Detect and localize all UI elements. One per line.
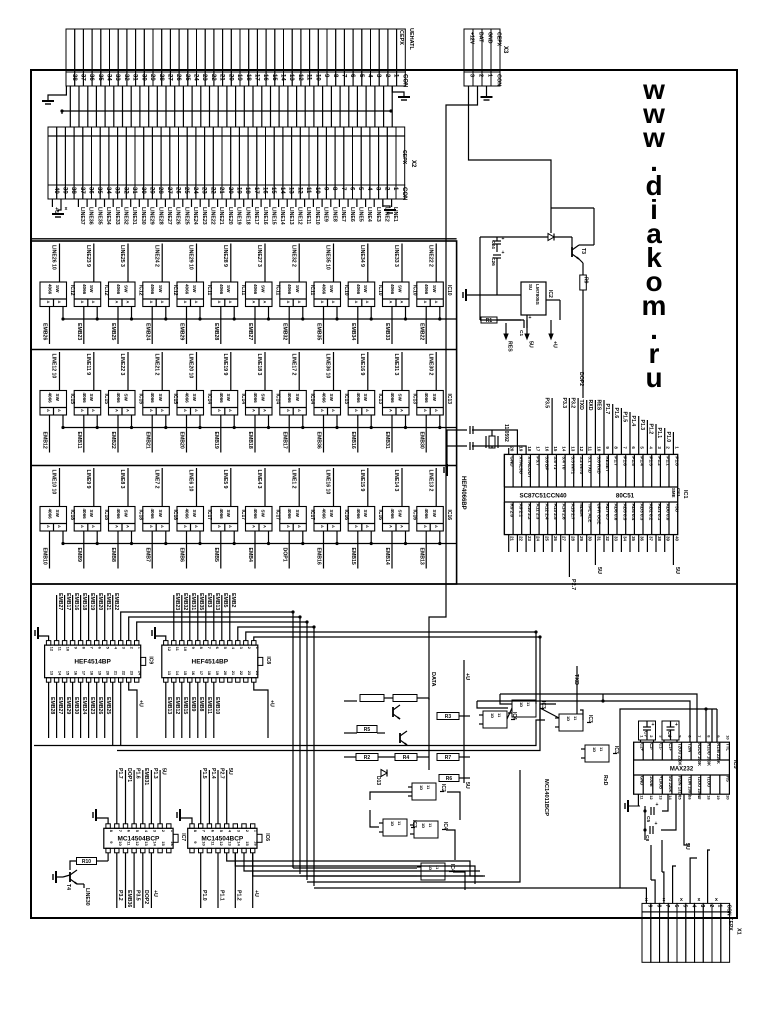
svg-text:X1: X1	[736, 928, 742, 935]
svg-text:4066: 4066	[150, 284, 155, 295]
svg-text:P3.2: P3.2	[117, 890, 123, 901]
svg-text:22: 22	[122, 671, 127, 676]
svg-text:CEPX: CEPX	[398, 30, 404, 45]
svg-text:4: 4	[114, 647, 119, 650]
svg-text:4: 4	[228, 830, 233, 833]
svg-text:37: 37	[648, 536, 653, 541]
svg-text:A: A	[434, 301, 439, 304]
svg-text:16: 16	[262, 74, 268, 81]
svg-text:1: 1	[717, 905, 723, 908]
svg-text:EMB11: EMB11	[206, 697, 212, 714]
svg-text:2: 2	[383, 187, 389, 191]
svg-text:38: 38	[70, 187, 76, 194]
svg-text:EMB24: EMB24	[81, 697, 87, 714]
svg-text:A: A	[46, 409, 51, 412]
svg-text:7: 7	[340, 187, 346, 191]
svg-text:24: 24	[193, 74, 199, 81]
svg-text:20: 20	[223, 671, 228, 676]
svg-text:19: 19	[215, 671, 220, 676]
svg-text:LINE30: LINE30	[84, 888, 90, 906]
svg-text:LINE12: LINE12	[297, 207, 303, 225]
svg-text:A: A	[80, 409, 85, 412]
svg-text:A: A	[331, 301, 336, 304]
svg-text:4066: 4066	[322, 284, 327, 295]
svg-text:4: 4	[367, 74, 373, 78]
svg-text:24: 24	[536, 536, 541, 541]
svg-text:4066: 4066	[185, 393, 190, 404]
svg-text:3.6 BP: 3.6 BP	[544, 456, 549, 470]
svg-text:30: 30	[140, 74, 146, 81]
svg-text:11: 11	[306, 74, 312, 81]
svg-text:27: 27	[562, 536, 567, 541]
svg-text:20: 20	[227, 187, 233, 194]
svg-text:8: 8	[614, 446, 619, 449]
svg-text:LINE37: LINE37	[79, 207, 85, 225]
svg-text:MC14504BCP: MC14504BCP	[117, 835, 160, 842]
svg-text:R9: R9	[583, 277, 589, 284]
svg-text:SW: SW	[226, 285, 231, 293]
svg-text:A: A	[297, 525, 302, 528]
svg-text:TXD: TXD	[573, 674, 579, 685]
svg-text:20: 20	[106, 671, 111, 676]
svg-text:MC14011BCP: MC14011BCP	[543, 779, 549, 816]
svg-text:28: 28	[157, 187, 163, 194]
svg-text:SW: SW	[363, 510, 368, 518]
svg-text:3: 3	[657, 446, 662, 449]
svg-text:LM7805S: LM7805S	[534, 284, 540, 306]
svg-text:P1.7: P1.7	[117, 768, 123, 779]
svg-text:29: 29	[579, 536, 584, 541]
svg-text:CEPX: CEPX	[496, 32, 502, 47]
svg-text:7: 7	[90, 647, 95, 650]
svg-text:CON: CON	[401, 187, 407, 200]
svg-text:LINE31 3: LINE31 3	[393, 354, 399, 376]
svg-text:P1.5: P1.5	[631, 456, 636, 466]
svg-text:5: 5	[358, 74, 364, 78]
svg-text:A10 2.2: A10 2.2	[527, 504, 532, 521]
svg-text:4066: 4066	[287, 509, 292, 520]
svg-text:A: A	[217, 409, 222, 412]
svg-text:P1.6: P1.6	[135, 768, 141, 779]
svg-text:LINE12 10: LINE12 10	[51, 354, 57, 379]
svg-text:12: 12	[297, 74, 303, 81]
svg-text:5: 5	[135, 830, 140, 833]
svg-text:EMB20: EMB20	[179, 432, 185, 449]
svg-text:11: 11	[599, 747, 604, 752]
svg-text:SW: SW	[158, 285, 163, 293]
svg-text:3.2 INT0: 3.2 INT0	[579, 456, 584, 474]
svg-text:4: 4	[366, 187, 372, 191]
svg-text:P1.1: P1.1	[656, 428, 662, 439]
svg-text:21: 21	[114, 671, 119, 676]
svg-text:36: 36	[88, 74, 94, 81]
svg-text:2: 2	[666, 446, 671, 449]
svg-text:+U: +U	[552, 341, 558, 348]
svg-text:SW: SW	[55, 394, 60, 402]
svg-text:P3.5: P3.5	[544, 398, 550, 409]
svg-text:IC16: IC16	[446, 510, 452, 521]
svg-text:9: 9	[322, 187, 328, 191]
svg-text:EMB17: EMB17	[281, 432, 287, 449]
svg-text:10: 10	[726, 735, 731, 740]
svg-text:IC3: IC3	[587, 715, 593, 723]
svg-text:22: 22	[209, 187, 215, 194]
svg-text:A12 2.4: A12 2.4	[544, 504, 549, 521]
svg-text:A: A	[183, 301, 188, 304]
svg-text:DOP1: DOP1	[281, 548, 287, 562]
svg-text:20: 20	[726, 795, 731, 800]
svg-text:18: 18	[207, 671, 212, 676]
svg-text:SC87C51CCN40: SC87C51CCN40	[519, 493, 567, 500]
svg-text:IC6: IC6	[264, 833, 270, 841]
svg-text:x: x	[680, 897, 683, 903]
svg-text:CS1: CS1	[676, 488, 681, 497]
svg-text:9: 9	[191, 647, 196, 650]
svg-text:LINE22: LINE22	[210, 207, 216, 225]
svg-text:4066: 4066	[116, 284, 121, 295]
svg-text:17: 17	[82, 671, 87, 676]
svg-text:EMB29: EMB29	[179, 323, 185, 340]
svg-text:20: 20	[227, 74, 233, 81]
svg-text:D13: D13	[375, 776, 381, 785]
svg-text:14: 14	[562, 446, 567, 451]
svg-text:A: A	[228, 525, 233, 528]
svg-text:LINE20: LINE20	[227, 207, 233, 225]
svg-text:HEF4514BP: HEF4514BP	[192, 658, 229, 665]
svg-text:+: +	[656, 802, 659, 808]
svg-text:P1.2: P1.2	[236, 890, 242, 901]
svg-text:5: 5	[640, 446, 645, 449]
svg-text:4066: 4066	[287, 393, 292, 404]
svg-text:10: 10	[183, 647, 188, 652]
svg-text:A: A	[217, 525, 222, 528]
svg-text:1: 1	[254, 830, 259, 833]
svg-text:23: 23	[201, 74, 207, 81]
svg-text:LINE32: LINE32	[123, 207, 129, 225]
svg-text:13: 13	[659, 795, 664, 800]
svg-text:x: x	[715, 897, 718, 903]
svg-text:34: 34	[106, 74, 112, 81]
svg-text:A: A	[320, 525, 325, 528]
svg-text:P1.4: P1.4	[640, 456, 645, 466]
svg-text:36: 36	[640, 536, 645, 541]
svg-text:A: A	[423, 525, 428, 528]
svg-text:4066: 4066	[185, 509, 190, 520]
svg-text:7: 7	[664, 905, 670, 908]
svg-text:5U: 5U	[227, 768, 233, 775]
svg-text:EMB6: EMB6	[179, 548, 185, 563]
svg-text:LINE32 2: LINE32 2	[290, 245, 296, 267]
svg-text:4066: 4066	[424, 284, 429, 295]
svg-text:IC2: IC2	[440, 784, 446, 792]
svg-text:EMB30: EMB30	[73, 697, 79, 714]
svg-text:1: 1	[393, 74, 399, 78]
svg-text:LINE13 2: LINE13 2	[427, 470, 433, 492]
svg-text:LINE13: LINE13	[288, 207, 294, 225]
svg-text:35: 35	[96, 187, 102, 194]
svg-text:EMB4: EMB4	[247, 548, 253, 563]
svg-text:EMB11: EMB11	[76, 432, 82, 449]
svg-text:EMB5: EMB5	[222, 593, 228, 608]
svg-text:32: 32	[123, 74, 129, 81]
svg-text:AD1 0.1: AD1 0.1	[657, 504, 662, 521]
svg-text:DATA: DATA	[430, 672, 436, 686]
svg-text:35: 35	[97, 74, 103, 81]
svg-text:11: 11	[175, 647, 180, 652]
svg-text:29: 29	[149, 74, 155, 81]
svg-text:A: A	[57, 409, 62, 412]
svg-text:P1.1: P1.1	[218, 890, 224, 901]
svg-text:18: 18	[90, 671, 95, 676]
svg-text:LINE9: LINE9	[323, 207, 329, 222]
svg-text:LINE21 2: LINE21 2	[153, 354, 159, 376]
svg-text:NDEH: NDEH	[579, 504, 584, 518]
svg-text:19: 19	[236, 74, 242, 81]
svg-text:30: 30	[140, 187, 146, 194]
svg-text:EMB18: EMB18	[247, 432, 253, 449]
svg-text:EMB26: EMB26	[97, 697, 103, 714]
svg-text:AD0 0.0: AD0 0.0	[666, 504, 671, 521]
svg-text:LINE15 9: LINE15 9	[359, 470, 365, 492]
svg-text:SW: SW	[89, 285, 94, 293]
svg-text:LINE33: LINE33	[114, 207, 120, 225]
svg-text:15: 15	[183, 671, 188, 676]
svg-text:EMB13: EMB13	[214, 593, 220, 610]
svg-text:R2: R2	[364, 755, 371, 761]
svg-text:+U: +U	[464, 673, 470, 680]
svg-text:22: 22	[518, 536, 523, 541]
svg-text:25: 25	[544, 536, 549, 541]
svg-text:A: A	[365, 525, 370, 528]
svg-text:9: 9	[109, 841, 114, 844]
svg-text:LINE22 3: LINE22 3	[119, 354, 125, 376]
svg-text:27: 27	[166, 187, 172, 194]
svg-text:IC13: IC13	[446, 394, 452, 405]
svg-text:SW: SW	[432, 285, 437, 293]
svg-text:LINE27: LINE27	[166, 207, 172, 225]
svg-text:2: 2	[247, 647, 252, 650]
svg-text:LINE3: LINE3	[375, 207, 381, 222]
svg-text:33: 33	[114, 187, 120, 194]
svg-text:17: 17	[253, 74, 259, 81]
svg-text:6: 6	[673, 905, 679, 908]
svg-text:40: 40	[53, 187, 59, 194]
svg-text:3: 3	[699, 905, 705, 908]
svg-text:6: 6	[210, 830, 215, 833]
svg-text:EMB8: EMB8	[198, 697, 204, 712]
svg-text:SME: SME	[671, 488, 676, 498]
svg-text:4066: 4066	[48, 284, 53, 295]
svg-text:A: A	[354, 301, 359, 304]
svg-text:EMB34: EMB34	[350, 323, 356, 340]
svg-text:1D: 1D	[390, 821, 395, 826]
svg-text:A: A	[320, 301, 325, 304]
svg-text:37: 37	[79, 187, 85, 194]
svg-text:AD5 0.5: AD5 0.5	[622, 504, 627, 521]
svg-text:EMB27: EMB27	[247, 323, 253, 340]
svg-text:1D: 1D	[490, 713, 495, 718]
svg-text:22: 22	[239, 671, 244, 676]
svg-text:A: A	[263, 525, 268, 528]
svg-text:A: A	[331, 409, 336, 412]
svg-text:18: 18	[244, 187, 250, 194]
svg-text:SW: SW	[329, 510, 334, 518]
svg-text:15: 15	[66, 671, 71, 676]
svg-text:LINE35 10: LINE35 10	[325, 245, 331, 270]
svg-text:EMB2: EMB2	[230, 593, 236, 608]
svg-text:LINE11 9: LINE11 9	[85, 354, 91, 376]
svg-text:LINE25 3: LINE25 3	[119, 245, 125, 267]
svg-text:UPR OCE: UPR OCE	[596, 504, 601, 525]
svg-text:A: A	[194, 301, 199, 304]
svg-text:LINE4: LINE4	[366, 207, 372, 222]
svg-text:A: A	[320, 409, 325, 412]
svg-text:EMB10: EMB10	[214, 697, 220, 714]
svg-text:EMB21: EMB21	[105, 593, 111, 610]
svg-text:4066: 4066	[322, 393, 327, 404]
svg-text:24: 24	[138, 671, 143, 676]
svg-text:15: 15	[270, 187, 276, 194]
svg-text:8: 8	[332, 74, 338, 78]
svg-text:EMB9: EMB9	[76, 548, 82, 563]
svg-text:SU: SU	[528, 284, 533, 290]
svg-text:11: 11	[573, 716, 578, 721]
svg-text:UEHATL: UEHATL	[408, 28, 414, 51]
svg-text:3: 3	[239, 647, 244, 650]
svg-text:LINE10: LINE10	[314, 207, 320, 225]
svg-text:11: 11	[397, 821, 402, 826]
svg-text:A: A	[80, 301, 85, 304]
svg-text:LINE6 10: LINE6 10	[188, 470, 194, 492]
svg-text:TXD: TXD	[578, 400, 584, 411]
svg-text:C24: C24	[490, 240, 496, 249]
svg-text:LINE22 2: LINE22 2	[427, 245, 433, 267]
svg-text:A: A	[149, 301, 154, 304]
svg-text:A: A	[126, 525, 131, 528]
svg-text:SW: SW	[89, 394, 94, 402]
svg-text:LINE8: LINE8	[331, 207, 337, 222]
svg-text:P3.2: P3.2	[570, 398, 576, 409]
svg-text:19: 19	[518, 446, 523, 451]
svg-text:LINE27 3: LINE27 3	[256, 245, 262, 267]
svg-text:EMB32: EMB32	[182, 593, 188, 610]
svg-text:A: A	[331, 525, 336, 528]
svg-text:3: 3	[375, 187, 381, 191]
svg-text:15: 15	[271, 74, 277, 81]
svg-text:EMB22: EMB22	[110, 432, 116, 449]
svg-text:A: A	[115, 409, 120, 412]
svg-text:7: 7	[697, 735, 702, 738]
svg-text:SW: SW	[124, 510, 129, 518]
svg-text:A: A	[194, 525, 199, 528]
svg-text:4066: 4066	[48, 509, 53, 520]
svg-text:40: 40	[674, 536, 679, 541]
svg-text:LINE4 3: LINE4 3	[256, 470, 262, 489]
svg-text:4: 4	[648, 446, 653, 449]
svg-text:4066: 4066	[219, 284, 224, 295]
svg-text:LINE18 3: LINE18 3	[256, 354, 262, 376]
svg-text:P1.5: P1.5	[201, 768, 207, 779]
svg-text:A: A	[126, 409, 131, 412]
svg-text:R5: R5	[364, 727, 371, 733]
svg-text:2: 2	[708, 905, 714, 908]
svg-text:4066: 4066	[253, 393, 258, 404]
svg-text:3.1 TXD: 3.1 TXD	[588, 456, 593, 474]
svg-text:LINE28: LINE28	[157, 207, 163, 225]
svg-text:1D: 1D	[419, 785, 424, 790]
svg-text:LINE24 2: LINE24 2	[153, 245, 159, 267]
svg-text:EMB36: EMB36	[316, 432, 322, 449]
svg-text:9: 9	[678, 735, 683, 738]
svg-text:+: +	[652, 722, 655, 728]
svg-text:16: 16	[544, 446, 549, 451]
svg-text:EMB31: EMB31	[384, 432, 390, 449]
svg-text:EMB18: EMB18	[81, 593, 87, 610]
svg-text:A: A	[297, 409, 302, 412]
svg-text:5U: 5U	[684, 843, 690, 850]
svg-text:5U: 5U	[674, 567, 680, 574]
svg-text:LINE17 2: LINE17 2	[290, 354, 296, 376]
svg-text:LINE34: LINE34	[105, 207, 111, 225]
svg-text:A13 2.5: A13 2.5	[553, 504, 558, 521]
svg-text:LINE16 10: LINE16 10	[325, 470, 331, 495]
svg-text:RXD: RXD	[587, 400, 593, 411]
svg-text:MAX232: MAX232	[670, 767, 694, 773]
svg-text:4066: 4066	[219, 509, 224, 520]
svg-text:GND: GND	[510, 456, 515, 467]
svg-text:13: 13	[288, 187, 294, 194]
svg-text:4: 4	[231, 647, 236, 650]
svg-text:EMB32: EMB32	[281, 323, 287, 340]
svg-text:EMB25: EMB25	[110, 323, 116, 340]
svg-text:34: 34	[105, 187, 111, 194]
svg-text:38: 38	[657, 536, 662, 541]
svg-text:R4: R4	[403, 755, 410, 761]
svg-text:2: 2	[649, 735, 654, 738]
svg-text:LINE18: LINE18	[244, 207, 250, 225]
svg-text:EMB15: EMB15	[182, 697, 188, 714]
svg-text:15: 15	[245, 841, 250, 846]
svg-text:IC10: IC10	[446, 285, 452, 296]
svg-text:IC4: IC4	[442, 822, 448, 830]
svg-text:LINE23 9: LINE23 9	[85, 245, 91, 267]
svg-text:3: 3	[375, 74, 381, 78]
svg-text:4066: 4066	[150, 509, 155, 520]
svg-text:+U: +U	[253, 890, 259, 897]
svg-text:28: 28	[570, 536, 575, 541]
svg-text:A: A	[286, 301, 291, 304]
svg-text:SW: SW	[261, 394, 266, 402]
svg-text:LINE8 3: LINE8 3	[119, 470, 125, 489]
svg-text:A14 2.6: A14 2.6	[562, 504, 567, 521]
svg-text:P3.3: P3.3	[561, 398, 567, 409]
svg-text:A: A	[160, 409, 165, 412]
svg-text:13: 13	[50, 671, 55, 676]
svg-text:EMB20: EMB20	[97, 593, 103, 610]
svg-text:5U: 5U	[464, 782, 470, 789]
svg-text:EMB27: EMB27	[57, 697, 63, 714]
svg-text:A: A	[183, 409, 188, 412]
svg-text:5: 5	[219, 830, 224, 833]
svg-text:LINE30: LINE30	[140, 207, 146, 225]
svg-text:A: A	[115, 525, 120, 528]
svg-text:EMB35: EMB35	[198, 593, 204, 610]
svg-text:A: A	[217, 301, 222, 304]
svg-text:23: 23	[527, 536, 532, 541]
svg-text:26: 26	[553, 536, 558, 541]
svg-text:LINE19: LINE19	[236, 207, 242, 225]
svg-text:EMB35: EMB35	[316, 323, 322, 340]
